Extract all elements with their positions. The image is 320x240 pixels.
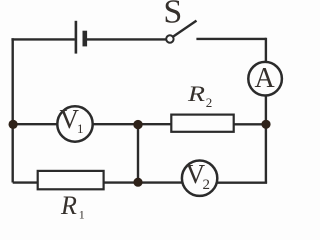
wire left vertical <box>11 38 13 182</box>
wire middle vertical <box>137 125 139 183</box>
svg-text:R: R <box>60 191 77 220</box>
wire V1 row horizontal <box>13 123 171 125</box>
svg-text:S: S <box>163 0 182 31</box>
switch S lever <box>173 21 197 37</box>
wire R1 to bottom junction <box>104 181 138 183</box>
junction dot right node <box>261 120 270 129</box>
svg-text:A: A <box>254 63 275 94</box>
svg-text:1: 1 <box>79 207 85 221</box>
voltmeter V2 circle <box>182 161 217 196</box>
battery long plate <box>75 21 78 54</box>
resistor R1 body <box>38 171 104 189</box>
junction dot bottom node <box>133 178 142 187</box>
svg-text:R: R <box>187 81 206 106</box>
wire top-left horizontal <box>11 38 74 40</box>
battery short plate <box>83 31 88 47</box>
svg-text:2: 2 <box>206 95 213 110</box>
voltmeter V1 circle <box>57 106 92 141</box>
wire right vertical <box>265 38 267 183</box>
junction dot left node <box>9 120 18 129</box>
wire switch to top-right corner <box>196 38 266 40</box>
ammeter A circle <box>248 62 282 96</box>
resistor R2 body <box>171 115 233 132</box>
wire bottom-right corner to voltmeter V2 <box>217 181 267 183</box>
junction dot middle node <box>133 120 142 129</box>
wire bottom-left to R1 <box>13 181 38 183</box>
wire battery to switch <box>87 38 166 40</box>
switch S pivot <box>166 35 173 42</box>
svg-text:1: 1 <box>77 121 84 136</box>
svg-text:2: 2 <box>202 177 210 193</box>
wire R2 to right junction <box>234 123 266 125</box>
wire V2 to bottom junction <box>138 181 182 183</box>
